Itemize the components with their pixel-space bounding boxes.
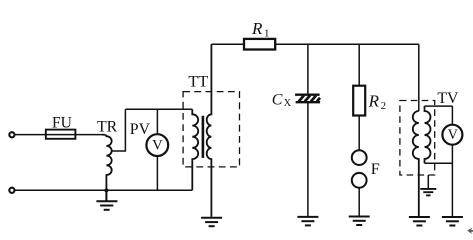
TV primary winding: [413, 111, 419, 216]
svg-text:TT: TT: [188, 72, 208, 90]
ground under Cx: [297, 217, 318, 226]
wire top rail right: [275, 43, 419, 45]
svg-text:2: 2: [381, 100, 387, 112]
wire top rail left: [211, 43, 244, 45]
voltmeter V of TV: [442, 125, 462, 145]
ground under TV primary: [409, 217, 430, 226]
wire PV bottom lead: [156, 156, 158, 190]
wire TV case earth stub: [427, 175, 429, 188]
wire R2 to gap: [358, 116, 360, 151]
sphere gap F lower sphere: [352, 173, 367, 188]
wire TV secondary bottom to voltmeter: [425, 162, 453, 164]
svg-text:V: V: [448, 127, 459, 143]
TT secondary winding: [207, 44, 212, 217]
svg-text:R: R: [368, 92, 380, 111]
ground TV case small: [420, 189, 436, 196]
svg-text:F: F: [371, 160, 380, 178]
svg-text:R: R: [251, 19, 263, 38]
sphere gap F upper sphere: [352, 150, 367, 165]
svg-text:FU: FU: [52, 114, 72, 131]
resistor R2: [353, 86, 365, 116]
svg-text:PV: PV: [130, 121, 151, 138]
resistor R1: [244, 39, 275, 50]
ground under voltmeter V: [442, 217, 463, 226]
svg-text:TR: TR: [97, 118, 118, 135]
transformer TT enclosure dashed box: [183, 92, 239, 167]
terminal input bottom: [9, 188, 14, 193]
node TR bottom junction: [104, 188, 108, 192]
wire Cx branch lower: [307, 103, 309, 216]
wire top rail drop to TV: [418, 44, 420, 111]
TT primary winding: [192, 109, 198, 190]
ground under TR: [96, 190, 117, 210]
voltmeter PV: [146, 134, 168, 156]
svg-text:TV: TV: [437, 90, 459, 107]
TV secondary winding: [425, 106, 431, 163]
svg-text:C: C: [272, 92, 283, 109]
svg-text:V: V: [152, 137, 163, 153]
capacitor Cx hatched plates: [295, 95, 320, 103]
wire Cx branch upper: [307, 44, 309, 94]
svg-text:1: 1: [264, 27, 270, 39]
fuse FU body: [46, 130, 76, 139]
terminal input top: [9, 132, 14, 137]
wire TV secondary top to voltmeter: [425, 105, 453, 107]
ground under F: [349, 217, 370, 226]
wire tap sub-rail to TT primary: [125, 108, 192, 110]
wire terminal to fuse: [15, 134, 46, 136]
svg-text:X: X: [284, 98, 292, 109]
ground under TT secondary: [201, 218, 222, 226]
cursor artifact: [467, 228, 473, 235]
wire voltmeter top lead: [451, 106, 453, 125]
wire PV top lead: [156, 109, 158, 134]
TR tap wire: [112, 109, 126, 151]
wire gap to ground: [358, 188, 360, 216]
wire R2 branch upper: [358, 44, 360, 85]
fuse FU wire through: [46, 134, 102, 136]
wire voltmeter bottom lead: [451, 145, 453, 217]
autotransformer TR winding: [102, 135, 112, 191]
TT core: [202, 116, 205, 158]
wire bottom rail: [15, 189, 193, 191]
transformer TV enclosure dashed box: [400, 101, 435, 176]
